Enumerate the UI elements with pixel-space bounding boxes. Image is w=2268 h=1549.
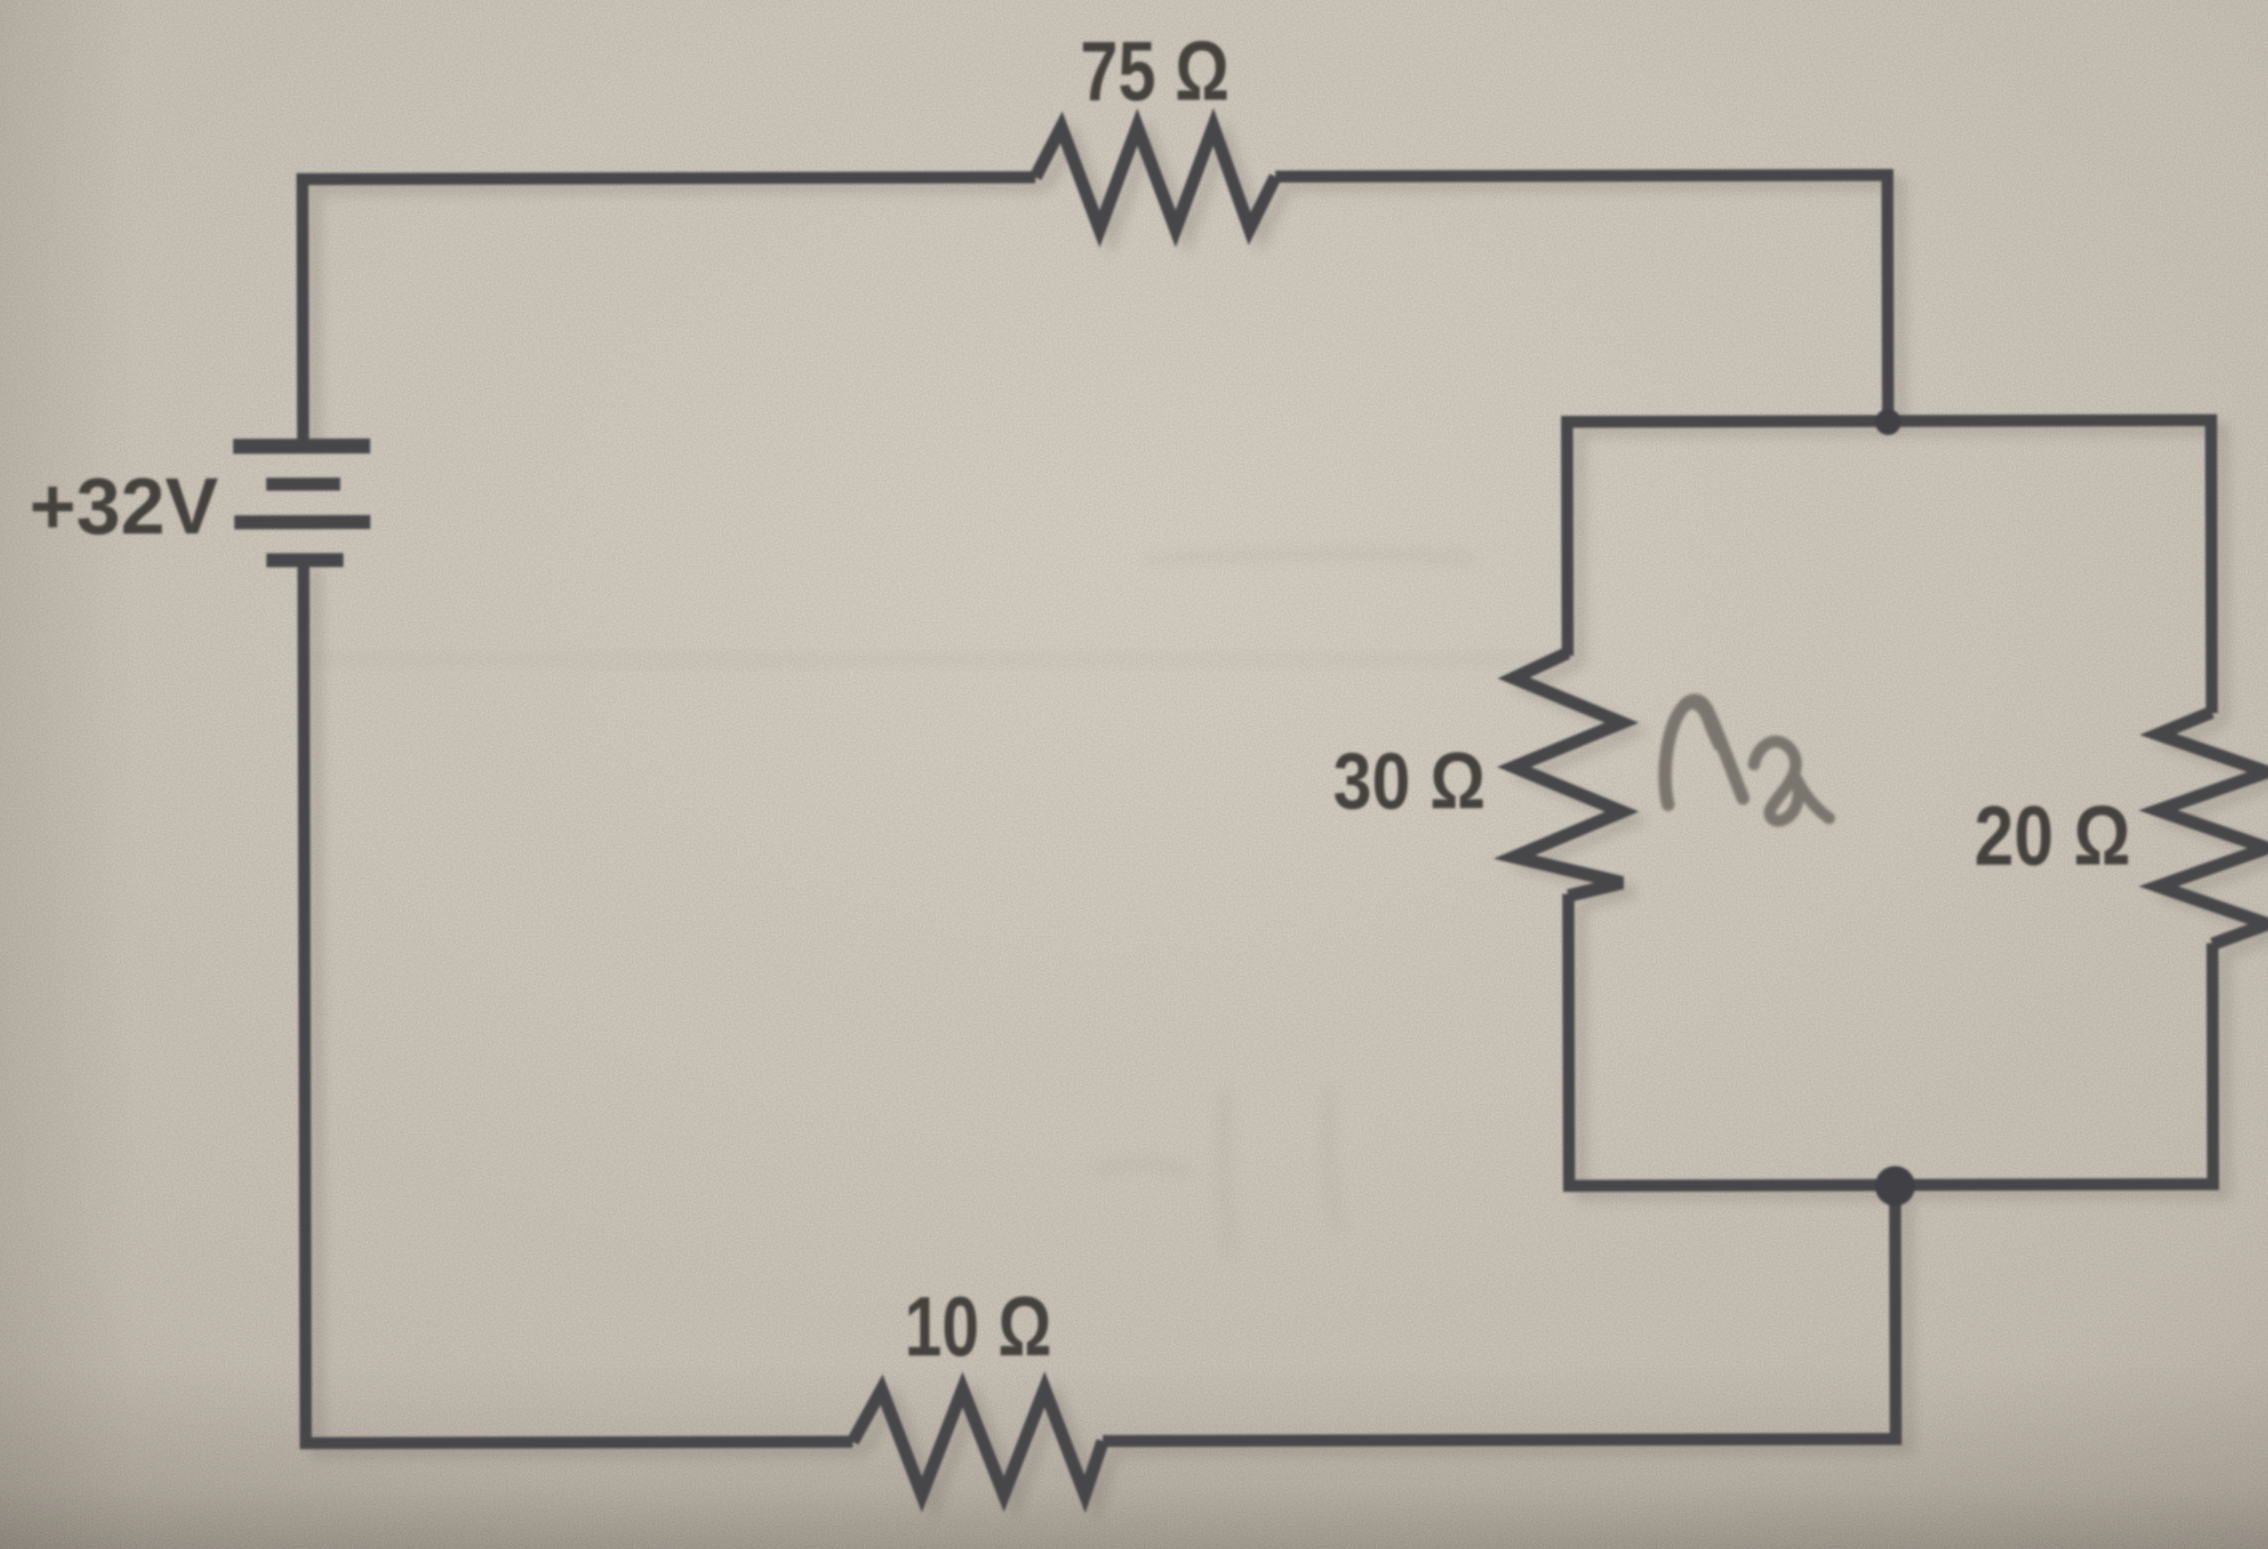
faint paper crease bbox=[300, 652, 1550, 668]
node A (top junction dot) bbox=[1875, 409, 1901, 435]
photo shadow of circuit bbox=[314, 133, 2268, 1505]
wire: 10ohm back to battery bottom bbox=[297, 559, 852, 1443]
svg-text:30 Ω: 30 Ω bbox=[1333, 736, 1486, 826]
wire: 75ohm resistor to top-right corner down to node A bbox=[1275, 169, 1888, 424]
svg-text:75 Ω: 75 Ω bbox=[1080, 25, 1229, 119]
faint bleed-through ghost marks bbox=[1100, 554, 1470, 1250]
svg-text:10 Ω: 10 Ω bbox=[904, 1280, 1052, 1374]
svg-text:+32V: +32V bbox=[29, 461, 218, 550]
resistor 20ohm bbox=[2158, 712, 2268, 944]
wire: node B down and bottom wire to 10ohm bbox=[1102, 1179, 1902, 1441]
svg-text:20 Ω: 20 Ω bbox=[1974, 788, 2131, 883]
node B (bottom junction dot) bbox=[1875, 1166, 1915, 1206]
resistor R1 75ohm bbox=[1035, 127, 1275, 230]
wire: battery top to 75ohm resistor bbox=[296, 177, 1036, 439]
resistor 10ohm bbox=[853, 1389, 1103, 1495]
wire: 30ohm branch bottom rail to 20ohm branch bbox=[1562, 892, 2213, 1192]
wire: node A horizontal rail to both branches bbox=[1561, 414, 2212, 715]
battery BT1 +32V plates bbox=[233, 446, 370, 560]
resistor R2 30ohm bbox=[1514, 653, 1623, 896]
handwritten label R2 (pencil) bbox=[1665, 700, 1829, 821]
